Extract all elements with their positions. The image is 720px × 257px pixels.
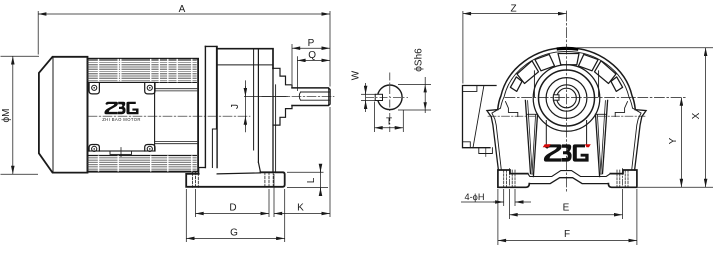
svg-text:D: D [229,203,236,214]
motor end bell seam [197,59,199,172]
fin band vertical seams (white breaks) [99,60,192,171]
dimension P [291,44,293,84]
dimension D [195,189,197,217]
gear case box [217,49,273,69]
foot bolt hidden lines left [193,172,199,189]
motor behind (left) [463,86,497,148]
dome top black segment [558,47,576,51]
nameplate screw tabs [89,83,99,94]
gearbox logo ZBG with red accents [543,144,591,161]
dimension W [361,93,376,95]
hub circles [539,70,595,126]
dim labels left view [1,4,317,239]
gearbox dome outer [498,48,636,110]
svg-text:ϕM: ϕM [1,109,12,123]
motor logo ZBG [102,102,141,122]
dimension X [705,48,707,188]
foot (side view) [186,172,285,187]
window top [558,54,579,65]
ring side verticals [533,71,535,97]
svg-text:G: G [230,228,238,239]
window -75 [510,77,522,92]
motor cooling fins top band [88,61,197,81]
dimension Z [462,11,464,84]
gearbox dome inner line [501,51,633,108]
right horn ear [635,110,647,170]
svg-text:P: P [308,38,315,49]
svg-text:J: J [230,104,241,109]
dimension F [497,189,499,245]
spoke windows [510,54,622,92]
motor cooling fins bottom band [88,157,197,170]
motor centerline (dash-dot) [88,115,250,117]
bottom web profile outer [529,178,608,184]
bottom web profile inner [528,171,611,177]
dimension Y [680,98,682,188]
dimension L [287,171,324,173]
keyway lines on shaft [299,92,330,100]
dimension X extension lines [577,47,713,49]
window +57 [595,61,617,84]
svg-text:Q: Q [308,50,316,61]
key [375,94,382,100]
dimension phiS h6 [398,84,431,86]
fan cover seam [52,57,54,172]
gear case front face lines [272,68,274,172]
dimension E [509,189,511,219]
output shaft (side view) [292,88,330,106]
window -57 [517,61,539,84]
dim labels right view [465,4,702,241]
dimension A [37,11,39,55]
svg-text:Y: Y [668,137,679,144]
window +75 [611,77,623,92]
svg-text:E: E [563,203,570,214]
svg-text:X: X [691,112,702,119]
svg-text:Z: Z [510,4,516,15]
section centerlines [366,96,408,98]
right leg inner lines [603,100,608,173]
motor fan cover [39,57,88,173]
junction tab under motor [479,148,493,154]
svg-text:L: L [306,177,317,183]
hub ring circle [533,65,600,132]
svg-text:T: T [386,117,392,128]
svg-text:A: A [179,4,186,15]
4-phiH leader [461,201,495,203]
shaft section circle [378,85,403,110]
dimension J [244,96,288,98]
window -30 [535,54,555,70]
drain tab under nameplate [110,151,132,154]
feet bolt hidden lines [504,170,628,187]
left bolt pocket [506,102,518,117]
shaft centerline (dash-dot) [262,96,334,98]
centerlines right view [566,11,568,192]
dimension Q [296,56,298,91]
right bolt pocket [615,102,627,117]
nameplate [88,82,155,151]
dimension phiM extension lines [1,55,40,57]
dimension K [273,174,275,217]
dimension phiM [12,56,14,174]
svg-text:ZHI BAO MOTOR: ZHI BAO MOTOR [102,117,141,122]
feet [498,170,529,187]
svg-text:4-ϕH: 4-ϕH [465,192,485,202]
svg-text:K: K [297,203,304,214]
svg-text:ϕSh6: ϕSh6 [414,48,425,72]
left horn ear [487,110,499,170]
front bearing boss steps (top) [273,68,292,88]
svg-text:F: F [564,229,570,240]
hub key square [553,95,559,100]
svg-text:W: W [351,70,362,80]
dimension G [185,189,187,242]
left leg inner lines [525,100,530,173]
window +30 [579,54,599,70]
adapter flange [205,46,217,167]
front bearing boss steps (bottom) [273,106,292,126]
foot bolt hidden lines right [265,172,273,189]
hub boss to web lines [545,121,547,145]
dimension T [374,102,376,133]
motor body outline [88,59,199,172]
screws [92,85,97,90]
